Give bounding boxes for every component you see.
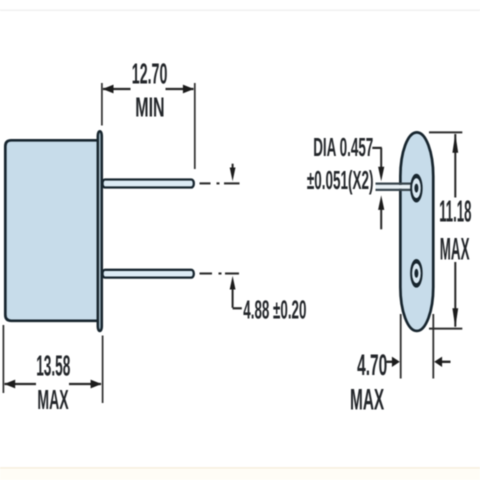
dimension 13.58 MAX : extension line right — [102, 336, 104, 404]
dimension 4.70 MAX : left-pointing arrow — [434, 357, 442, 367]
dimension 4.88 : leader to text — [233, 307, 242, 309]
svg-text:DIA 0.457: DIA 0.457 — [313, 133, 373, 162]
lead diameter edge lines into pin 1 — [376, 185, 411, 189]
dimension 4.70 MAX : right-pointing arrow — [387, 361, 393, 363]
dimension 4.70 MAX : left extension line — [400, 314, 402, 379]
weld flange — [98, 131, 102, 331]
svg-text:MAX: MAX — [37, 384, 68, 415]
centerline of lead 1 (dash-dot) — [200, 182, 240, 184]
dimension DIA 0.457 : down arrow — [380, 148, 382, 167]
dimension DIA 0.457 : leader from text — [372, 147, 382, 149]
dimension 4.88 : up arrow at lead 2 centerline — [230, 276, 236, 290]
svg-text:4.70: 4.70 — [357, 349, 387, 382]
lead 1 (top) — [103, 180, 194, 188]
svg-text:±0.051(X2): ±0.051(X2) — [307, 166, 374, 195]
svg-text:MAX: MAX — [350, 383, 384, 417]
dimension 12.70 MIN : extension line right — [194, 83, 196, 169]
faint bottom cream rule — [0, 467, 480, 469]
dimension 12.70 MIN : dimension line with arrows — [103, 88, 194, 90]
package end view (stadium outline) — [400, 132, 433, 331]
lead 2 (bottom) — [103, 270, 194, 278]
centerline of lead 2 (dash-dot) — [200, 272, 240, 274]
crystal body (side view) — [5, 140, 99, 320]
svg-text:13.58: 13.58 — [36, 349, 70, 382]
faint top rule — [0, 10, 480, 11]
svg-text:MIN: MIN — [135, 91, 164, 123]
bottom cream strip — [0, 469, 480, 480]
dimension 13.58 MAX : extension line left — [2, 325, 4, 393]
dimension 11.18 MAX : bottom extension line — [429, 328, 462, 330]
dimension 4.88 : down arrow at lead 1 centerline — [232, 164, 234, 169]
pin 2 (bottom, end view) — [411, 261, 422, 285]
dimension 11.18 MAX : top extension line — [429, 131, 462, 133]
svg-text:12.70: 12.70 — [132, 57, 168, 90]
pin 1 (top, end view) — [411, 176, 422, 200]
svg-text:4.88 ±0.20: 4.88 ±0.20 — [243, 296, 306, 325]
dimension DIA 0.457 : up arrow — [378, 195, 384, 210]
dimension 12.70 MIN : extension line left — [101, 83, 103, 126]
svg-text:11.18: 11.18 — [439, 194, 471, 228]
dimension 4.70 MAX : right extension line — [432, 314, 434, 379]
svg-text:MAX: MAX — [440, 232, 470, 267]
dimension 11.18 MAX : vertical dimension line with arrows — [454, 134, 456, 327]
dimension 13.58 MAX : dimension line with arrows — [5, 383, 101, 385]
